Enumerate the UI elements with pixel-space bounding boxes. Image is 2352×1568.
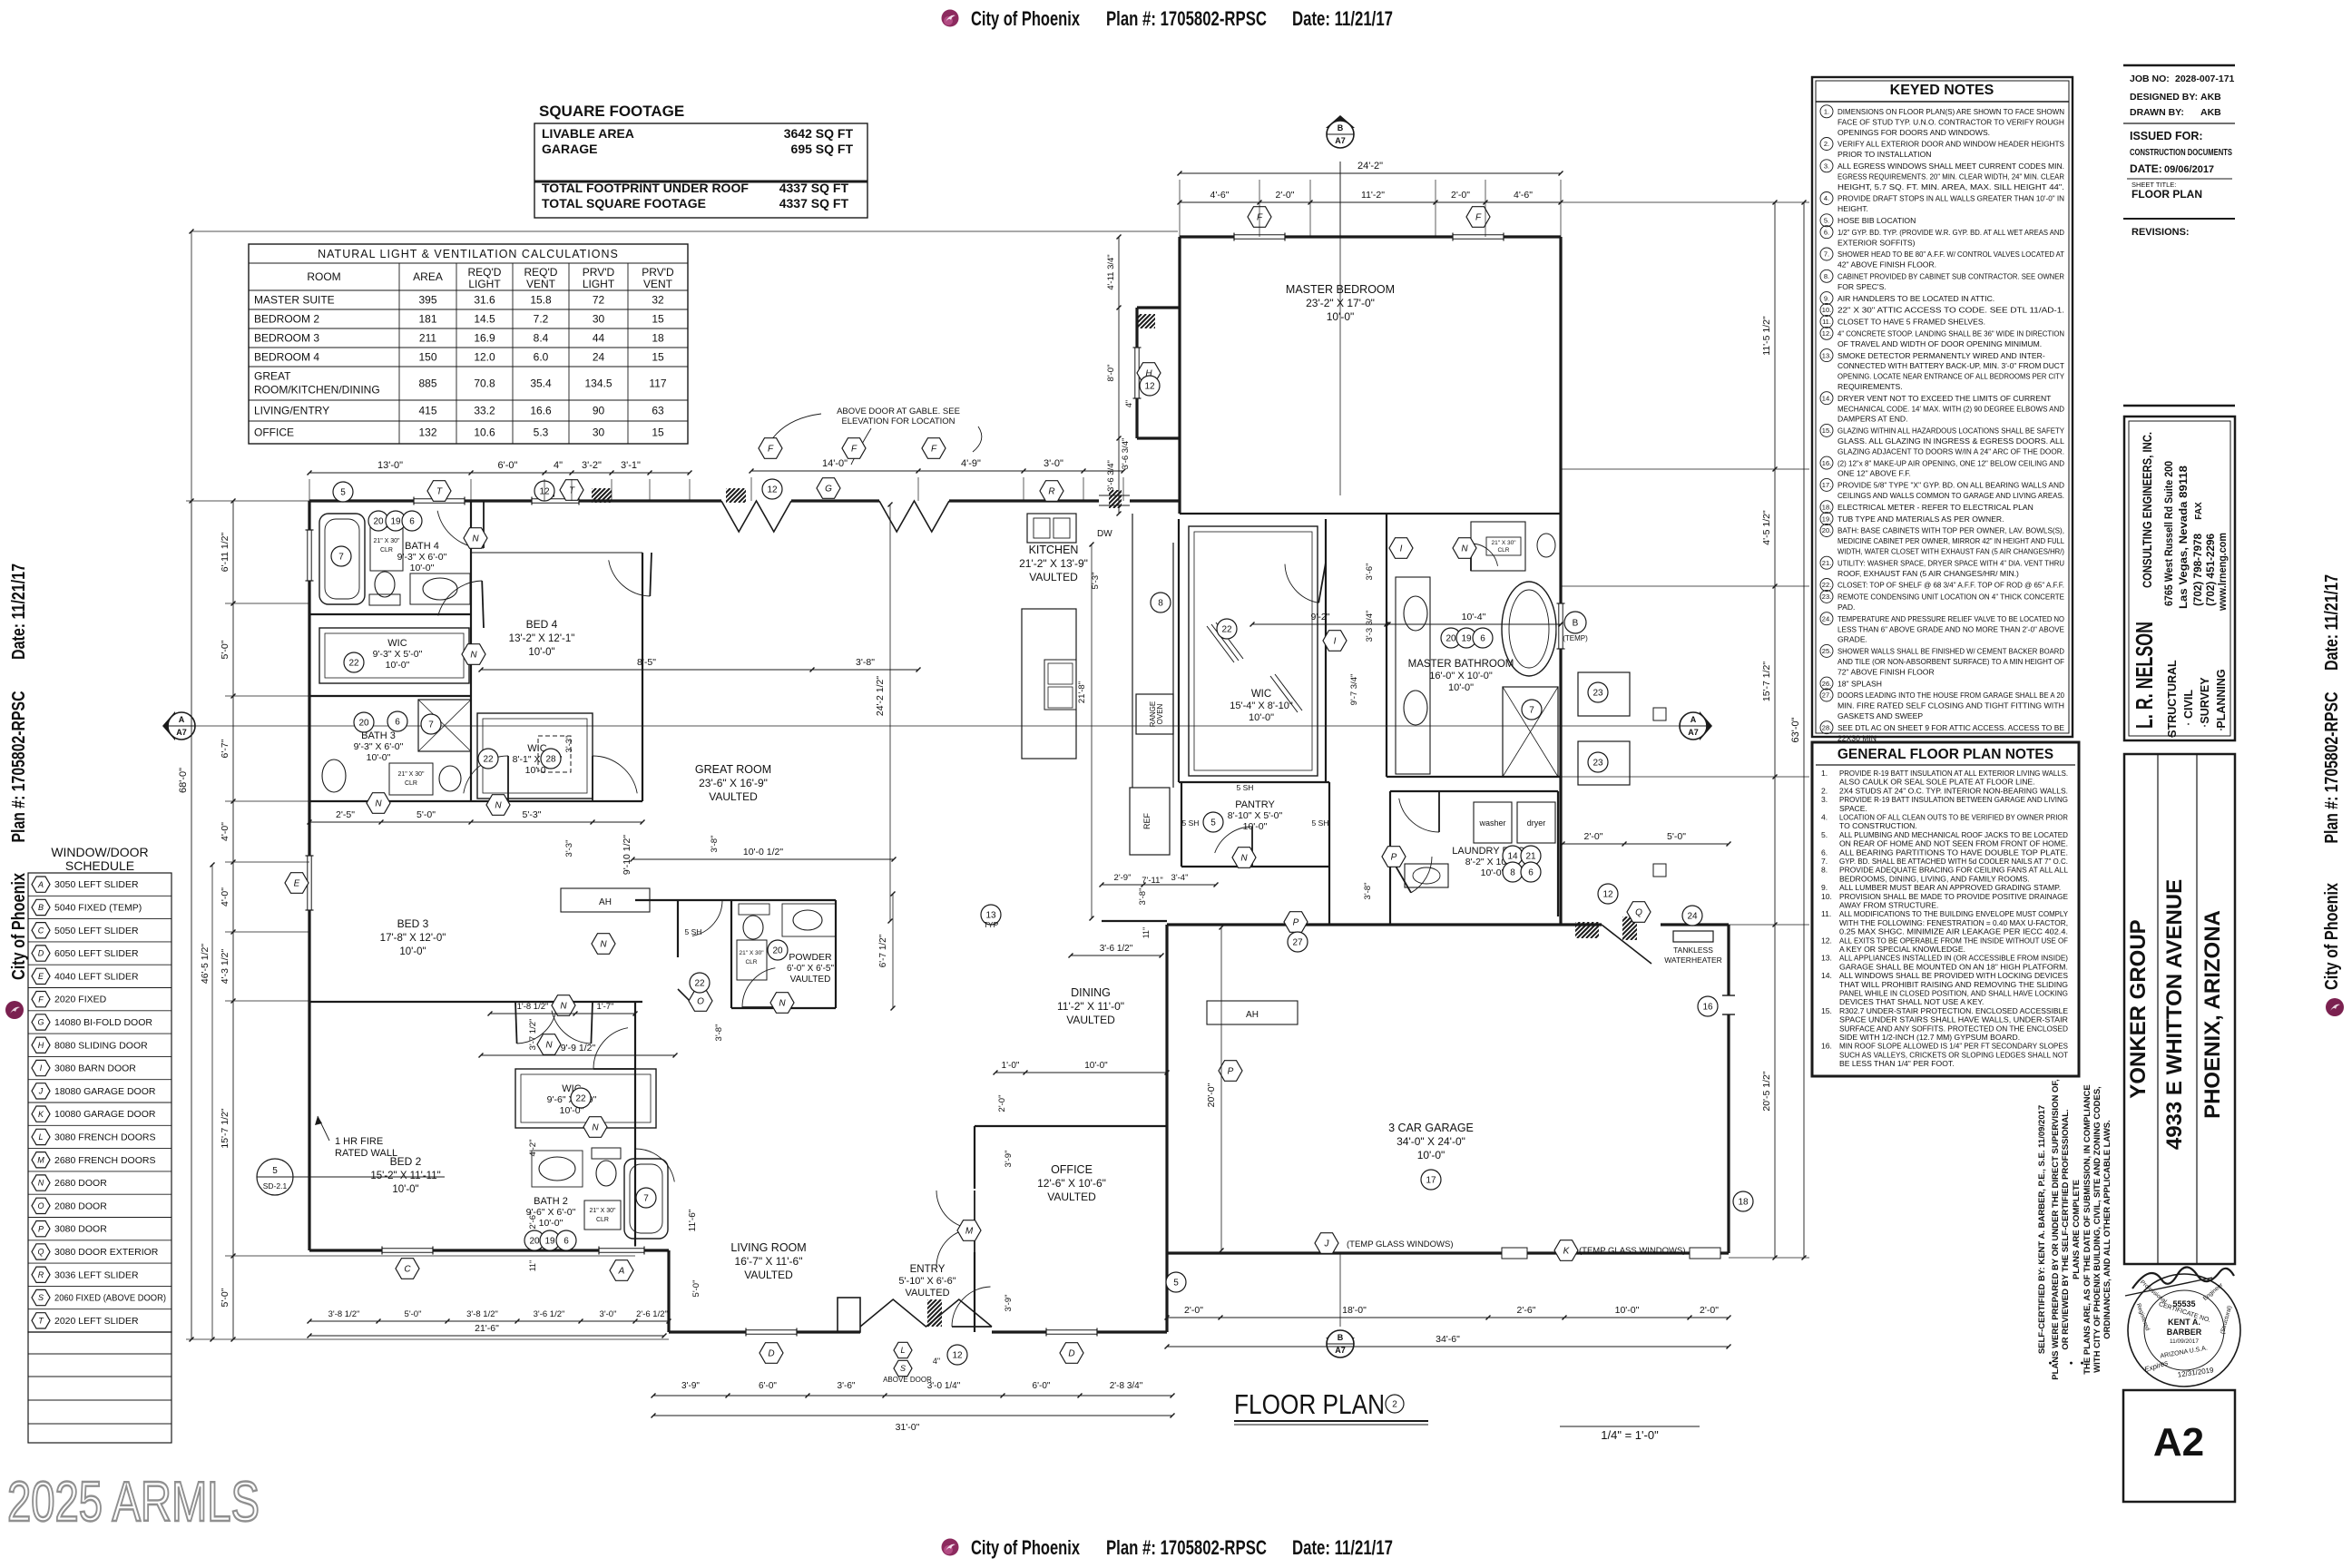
- svg-text:1'-7": 1'-7": [597, 1002, 614, 1012]
- room label garage: [1388, 1122, 1474, 1161]
- svg-text:3'-9": 3'-9": [1004, 1295, 1014, 1312]
- svg-text:H: H: [38, 1041, 44, 1050]
- svg-text:21.: 21.: [1822, 559, 1831, 567]
- attic access dashed: [538, 736, 571, 772]
- svg-text:134.5: 134.5: [584, 377, 612, 390]
- svg-text:PANTRY: PANTRY: [1235, 799, 1275, 810]
- svg-text:DW: DW: [1097, 529, 1112, 539]
- svg-text:4'-3 1/2": 4'-3 1/2": [220, 949, 230, 985]
- svg-text:SIDE WITH 1/2-INCH (12.7 MM) G: SIDE WITH 1/2-INCH (12.7 MM) GYPSUM BOAR…: [1839, 1033, 2020, 1042]
- general floor plan notes panel: [1812, 742, 2079, 1076]
- svg-text:ALL EXITS TO BE OPERABLE FROM: ALL EXITS TO BE OPERABLE FROM THE INSIDE…: [1839, 936, 2068, 945]
- room label bath2: [526, 1196, 576, 1229]
- room label bed4: [509, 618, 575, 658]
- svg-text:21" X 30": 21" X 30": [397, 771, 425, 778]
- svg-text:F: F: [1257, 213, 1263, 223]
- svg-text:F: F: [768, 445, 774, 455]
- svg-text:24.: 24.: [1822, 614, 1831, 622]
- svg-text:SHOWER WALLS SHALL BE FINISHED: SHOWER WALLS SHALL BE FINISHED W/ CEMENT…: [1837, 647, 2064, 656]
- svg-text:A7: A7: [1335, 1346, 1346, 1355]
- svg-text:DRAWN BY:: DRAWN BY:: [2130, 107, 2184, 118]
- svg-text:ALL WINDOWS SHALL BE PROVIDED: ALL WINDOWS SHALL BE PROVIDED WITH LOCKI…: [1839, 971, 2068, 980]
- svg-text:8'-5": 8'-5": [637, 657, 656, 668]
- svg-text:THAT WILL PROHIBIT RAISING AND: THAT WILL PROHIBIT RAISING AND REMOVING …: [1839, 980, 2068, 989]
- svg-text:CLR: CLR: [596, 1217, 609, 1223]
- svg-text:P: P: [1228, 1067, 1234, 1077]
- svg-text:ROOM: ROOM: [307, 270, 340, 283]
- svg-text:3080 DOOR: 3080 DOOR: [54, 1224, 107, 1235]
- svg-text:I: I: [1334, 637, 1337, 647]
- left outer dim 68 ft: [191, 501, 192, 1339]
- natural light and ventilation calculations table: [249, 244, 688, 444]
- svg-text:3'-7 1/2": 3'-7 1/2": [528, 1019, 538, 1051]
- svg-text:10'-0": 10'-0": [392, 1184, 418, 1195]
- svg-text:BEDROOM 4: BEDROOM 4: [254, 351, 319, 364]
- condenser pads with 23: [1578, 672, 1630, 716]
- svg-text:24'-2 1/2": 24'-2 1/2": [875, 676, 886, 717]
- svg-text:1.: 1.: [1821, 769, 1828, 778]
- svg-text:3'-8 1/2": 3'-8 1/2": [328, 1309, 360, 1319]
- svg-text:2'-0": 2'-0": [1276, 190, 1295, 201]
- svg-text:3'-8": 3'-8": [1138, 888, 1148, 906]
- svg-text:16.: 16.: [1822, 459, 1831, 467]
- svg-text:27: 27: [1292, 938, 1303, 948]
- svg-text:10'-4": 10'-4": [1462, 612, 1486, 622]
- self-certification text: [2037, 1079, 2112, 1380]
- svg-text:FACE OF STUD TYP. U.N.O. CONTR: FACE OF STUD TYP. U.N.O. CONTRACTOR TO V…: [1837, 117, 2064, 126]
- svg-text:117: 117: [649, 377, 666, 390]
- svg-text:ROOF, EXHAUST FAN (5 AIR CHANG: ROOF, EXHAUST FAN (5 AIR CHANGES/HR/ MIN…: [1837, 569, 2019, 578]
- svg-text:www.lrneng.com: www.lrneng.com: [2216, 533, 2229, 612]
- svg-text:6: 6: [395, 718, 400, 728]
- powder room walls: [635, 900, 836, 1010]
- svg-text:70.8: 70.8: [474, 377, 495, 390]
- svg-text:SUCH AS VALLEYS, CRICKETS OR S: SUCH AS VALLEYS, CRICKETS OR SLOPING LED…: [1839, 1050, 2069, 1059]
- svg-text:CONSULTING ENGINEERS, INC.: CONSULTING ENGINEERS, INC.: [2141, 432, 2154, 588]
- svg-text:PANEL WHILE IN CLOSED POSITION: PANEL WHILE IN CLOSED POSITION, AND SHAL…: [1839, 989, 2068, 998]
- svg-text:11'-2": 11'-2": [1361, 190, 1385, 201]
- footer text: [971, 1536, 1393, 1559]
- svg-text:E: E: [294, 879, 300, 889]
- svg-text:T: T: [436, 487, 443, 497]
- svg-text:ORDINANCES, AND ALL OTHER APPL: ORDINANCES, AND ALL OTHER APPLICABLE LAW…: [2102, 1120, 2112, 1339]
- svg-text:SQUARE FOOTAGE: SQUARE FOOTAGE: [539, 103, 684, 120]
- svg-text:22: 22: [1221, 625, 1232, 635]
- svg-text:3642 SQ FT: 3642 SQ FT: [784, 126, 854, 141]
- svg-text:WITH THE FOLLOWING: FENESTRATI: WITH THE FOLLOWING: FENESTRATION = 0.40 …: [1839, 918, 2068, 927]
- room label bath4: [397, 541, 447, 573]
- closet WIC bed3: [477, 713, 593, 799]
- room label wic2: [513, 743, 563, 776]
- room label living room: [730, 1241, 806, 1281]
- svg-text:5'-0": 5'-0": [416, 809, 436, 820]
- svg-text:F: F: [851, 445, 857, 455]
- svg-text:5.: 5.: [1824, 217, 1829, 225]
- room label entry: [898, 1264, 955, 1298]
- dimension extension lines left side: [186, 230, 1178, 1342]
- svg-text:3'-4": 3'-4": [1171, 873, 1189, 883]
- svg-text:6: 6: [1480, 634, 1485, 644]
- svg-text:9'-2": 9'-2": [1311, 612, 1330, 622]
- keyed notes panel: [1812, 77, 2073, 742]
- svg-text:1.: 1.: [1824, 108, 1829, 116]
- svg-text:4'-11 3/4": 4'-11 3/4": [1106, 254, 1116, 289]
- svg-text:CONNECTED WITH BATTERY BACK-UP: CONNECTED WITH BATTERY BACK-UP, MIN. 3'-…: [1837, 361, 2065, 370]
- svg-text:N: N: [1461, 544, 1468, 554]
- svg-text:3080 FRENCH DOORS: 3080 FRENCH DOORS: [54, 1132, 155, 1142]
- svg-text:ONE 12" ABOVE F.F.: ONE 12" ABOVE F.F.: [1837, 469, 1911, 478]
- svg-text:34'-0" X 24'-0": 34'-0" X 24'-0": [1396, 1135, 1465, 1148]
- svg-text:7'-11": 7'-11": [1142, 876, 1163, 886]
- svg-text:YONKER GROUP: YONKER GROUP: [2126, 919, 2151, 1098]
- svg-text:415: 415: [418, 405, 436, 417]
- svg-text:5: 5: [1173, 1279, 1179, 1289]
- svg-text:20'-5 1/2": 20'-5 1/2": [1761, 1071, 1772, 1112]
- svg-text:17: 17: [1426, 1176, 1436, 1186]
- svg-text:21" X 30": 21" X 30": [373, 538, 400, 544]
- room label office: [1037, 1163, 1106, 1203]
- window/door hexagon markers: [285, 207, 1651, 1364]
- svg-text:3'-3 3/4": 3'-3 3/4": [1365, 611, 1375, 642]
- svg-text:6'-11 1/2": 6'-11 1/2": [220, 532, 230, 572]
- svg-text:16.6: 16.6: [530, 405, 552, 417]
- svg-text:5040 FIXED (TEMP): 5040 FIXED (TEMP): [54, 902, 142, 913]
- svg-text:PROVIDE ADEQUATE BRACING FOR C: PROVIDE ADEQUATE BRACING FOR CEILING FAN…: [1839, 866, 2068, 875]
- svg-text:STRUCTURAL: STRUCTURAL: [2166, 660, 2179, 738]
- svg-text:BATH: BASE CABINETS WITH TOP: BATH: BASE CABINETS WITH TOP PER OWNER, …: [1837, 526, 2064, 535]
- svg-text:6'-0" X 6'-5": 6'-0" X 6'-5": [787, 964, 835, 974]
- svg-text:20.: 20.: [1822, 526, 1831, 534]
- svg-text:A7: A7: [1688, 728, 1699, 737]
- door swings: [437, 501, 1497, 1327]
- svg-text:9'-3" X 5'-0": 9'-3" X 5'-0": [373, 649, 423, 660]
- svg-text:2'-0": 2'-0": [1700, 1305, 1719, 1316]
- svg-text:2'-0": 2'-0": [1184, 1305, 1203, 1316]
- svg-text:395: 395: [418, 294, 436, 307]
- room label master wic: [1230, 689, 1293, 723]
- svg-text:12: 12: [1602, 890, 1613, 900]
- 5/SD-2.1 marker: [257, 1159, 445, 1195]
- note 1hr fire wall: [315, 1116, 397, 1159]
- svg-text:7.2: 7.2: [534, 313, 549, 326]
- svg-text:885: 885: [418, 377, 436, 390]
- svg-text:3'-6": 3'-6": [838, 1381, 856, 1391]
- svg-text:N: N: [779, 999, 786, 1009]
- svg-text:WINDOW/DOOR: WINDOW/DOOR: [51, 845, 148, 859]
- svg-text:25.: 25.: [1822, 647, 1831, 655]
- svg-text:8: 8: [1158, 599, 1163, 609]
- svg-text:1/2" GYP. BD. TYP. (PROVIDE W.: 1/2" GYP. BD. TYP. (PROVIDE W.R. GYP. BD…: [1837, 228, 2064, 237]
- svg-text:G: G: [37, 1018, 44, 1027]
- svg-text:3'-3": 3'-3": [564, 840, 574, 857]
- svg-text:5: 5: [340, 488, 346, 498]
- keyed note circle markers: [331, 376, 1753, 1365]
- svg-text:22" X 30" ATTIC ACCESS TO CODE: 22" X 30" ATTIC ACCESS TO CODE. SEE DTL …: [1837, 306, 2064, 315]
- svg-text:4'-5 1/2": 4'-5 1/2": [1761, 510, 1772, 545]
- svg-text:2'-0": 2'-0": [1584, 831, 1603, 842]
- svg-text:MECHANICAL CODE. 14' MAX. WITH: MECHANICAL CODE. 14' MAX. WITH (2) 90 DE…: [1837, 404, 2064, 413]
- svg-text:22: 22: [694, 979, 705, 989]
- right vertical dims: [1774, 202, 1776, 1258]
- room label powder: [787, 952, 835, 985]
- svg-text:N: N: [495, 801, 502, 811]
- svg-text:MIN. FIRE RATED SELF CLOSING A: MIN. FIRE RATED SELF CLOSING AND TIGHT F…: [1837, 701, 2064, 710]
- svg-text:OF TRAVEL AND WIDTH OF DOOR OP: OF TRAVEL AND WIDTH OF DOOR OPENING MINI…: [1837, 339, 2042, 348]
- svg-text:REMOTE CONDENSING UNIT LOCATIO: REMOTE CONDENSING UNIT LOCATION ON 4" TH…: [1837, 593, 2064, 602]
- svg-text:GLASS. ALL GLAZING IN INGRESS: GLASS. ALL GLAZING IN INGRESS & EGRESS D…: [1837, 436, 2064, 446]
- svg-text:GENERAL FLOOR PLAN NOTES: GENERAL FLOOR PLAN NOTES: [1837, 747, 2053, 762]
- svg-text:11'-2" X 11'-0": 11'-2" X 11'-0": [1057, 1000, 1124, 1013]
- svg-text:3'-8": 3'-8": [714, 1024, 724, 1042]
- svg-text:3'-6 3/4": 3'-6 3/4": [1106, 460, 1116, 492]
- svg-text:15: 15: [652, 426, 664, 439]
- svg-text:AND TILE (OR NON-ABSORBENT SUR: AND TILE (OR NON-ABSORBENT SURFACE) TO A…: [1837, 657, 2064, 666]
- svg-text:11.: 11.: [1821, 909, 1831, 918]
- svg-text:City of Phoenix: City of Phoenix: [971, 1536, 1081, 1559]
- svg-text:VENT: VENT: [643, 278, 673, 290]
- svg-text:2: 2: [1392, 1400, 1397, 1410]
- svg-text:PROVISION SHALL BE MADE TO PRO: PROVISION SHALL BE MADE TO PROVIDE POSIT…: [1839, 892, 2068, 901]
- svg-text:T: T: [569, 486, 575, 496]
- svg-text:6'-0": 6'-0": [759, 1381, 777, 1391]
- svg-text:10'-0": 10'-0": [1417, 1149, 1445, 1161]
- svg-text:CIVIL: CIVIL: [2182, 690, 2195, 719]
- svg-text:BEDROOM 3: BEDROOM 3: [254, 332, 319, 345]
- svg-text:5050 LEFT SLIDER: 5050 LEFT SLIDER: [54, 926, 139, 936]
- svg-text:55535: 55535: [2172, 1299, 2195, 1308]
- svg-text:90: 90: [593, 405, 605, 417]
- svg-text:7: 7: [338, 553, 344, 563]
- garage exterior top dims: [1563, 843, 1729, 845]
- svg-text:2080 DOOR: 2080 DOOR: [54, 1200, 107, 1211]
- svg-text:5'-0": 5'-0": [1667, 831, 1686, 842]
- svg-text:OPENING. LOCATE NEAR ENTRANCE: OPENING. LOCATE NEAR ENTRANCE OF ALL BED…: [1837, 372, 2064, 381]
- svg-text:Date: 11/21/17: Date: 11/21/17: [1292, 1536, 1393, 1559]
- svg-text:VAULTED: VAULTED: [790, 975, 831, 985]
- interior dim rows left wing: [309, 821, 642, 823]
- svg-text:15'-7 1/2": 15'-7 1/2": [220, 1108, 230, 1149]
- svg-text:13'-2" X 12'-1": 13'-2" X 12'-1": [509, 633, 575, 644]
- section line A-A7 horizontal: [162, 711, 1712, 740]
- svg-text:21" X 30": 21" X 30": [1491, 540, 1516, 546]
- svg-text:DESIGNED BY:: DESIGNED BY:: [2130, 92, 2198, 103]
- svg-text:6765 West Russell Rd Suite 20: 6765 West Russell Rd Suite 200: [2162, 461, 2175, 606]
- svg-text:13'-0": 13'-0": [377, 460, 403, 471]
- hatched wall sections: [577, 488, 623, 503]
- svg-text:11": 11": [1142, 927, 1151, 939]
- svg-text:20: 20: [529, 1237, 540, 1247]
- svg-text:MEDICINE CABINET PER OWNER, MI: MEDICINE CABINET PER OWNER, MIRROR 42" I…: [1837, 536, 2064, 545]
- svg-text:A: A: [1690, 715, 1697, 724]
- svg-text:R: R: [38, 1270, 44, 1279]
- svg-text:10'-0 1/2": 10'-0 1/2": [743, 847, 784, 857]
- svg-text:3'-9": 3'-9": [681, 1381, 700, 1391]
- svg-text:DAMPERS AT END.: DAMPERS AT END.: [1837, 415, 1908, 424]
- svg-text:2.: 2.: [1824, 140, 1829, 148]
- svg-text:4'-0": 4'-0": [220, 822, 230, 841]
- svg-text:4933 E WHITTON AVENUE: 4933 E WHITTON AVENUE: [2162, 879, 2187, 1150]
- svg-text:6.0: 6.0: [534, 351, 549, 364]
- svg-text:30: 30: [593, 426, 605, 439]
- svg-text:POWDER: POWDER: [789, 952, 832, 963]
- svg-text:N: N: [545, 1041, 553, 1051]
- interior misc dims: [632, 858, 894, 860]
- svg-text:4" CONCRETE STOOP. LANDING SH: 4" CONCRETE STOOP. LANDING SHALL BE 36" …: [1837, 329, 2064, 338]
- svg-text:6: 6: [1528, 868, 1534, 878]
- svg-text:S: S: [900, 1364, 906, 1373]
- svg-text:10'-0": 10'-0": [1249, 712, 1274, 723]
- svg-text:REF: REF: [1142, 812, 1151, 829]
- svg-text:·: ·: [2213, 727, 2229, 731]
- svg-text:O: O: [697, 997, 704, 1007]
- svg-text:23.: 23.: [1822, 593, 1831, 601]
- svg-text:CLR: CLR: [745, 959, 757, 965]
- svg-text:17.: 17.: [1822, 481, 1831, 489]
- svg-text:4337 SQ FT: 4337 SQ FT: [779, 196, 849, 211]
- svg-text:20: 20: [772, 946, 783, 956]
- svg-text:150: 150: [418, 351, 436, 364]
- svg-text:(2) 12"x 8" MAKE-UP AIR OPENIN: (2) 12"x 8" MAKE-UP AIR OPENING, ONE 12"…: [1837, 458, 2064, 467]
- svg-text:20: 20: [358, 719, 369, 729]
- svg-text:16.: 16.: [1821, 1042, 1832, 1051]
- svg-text:A: A: [179, 715, 185, 724]
- svg-text:SPACE UNDER STAIRS SHALL HAVE: SPACE UNDER STAIRS SHALL HAVE WALLS, UND…: [1839, 1015, 2068, 1024]
- svg-text:SD-2.1: SD-2.1: [263, 1181, 288, 1191]
- svg-text:10'-0": 10'-0": [539, 1218, 563, 1229]
- svg-text:EGRESS REQUIREMENTS. 20" MIN.: EGRESS REQUIREMENTS. 20" MIN. CLEAR WIDT…: [1837, 171, 2064, 181]
- bath 2 fixtures: [532, 1148, 668, 1239]
- svg-text:(TEMP): (TEMP): [1563, 634, 1588, 642]
- svg-text:10.: 10.: [1822, 306, 1831, 314]
- svg-text:Date: 11/21/17: Date: 11/21/17: [9, 563, 29, 660]
- svg-text:VAULTED: VAULTED: [905, 1288, 949, 1298]
- dimension extension lines right side: [1561, 202, 1809, 1258]
- svg-text:CLR: CLR: [380, 547, 393, 554]
- svg-text:4.: 4.: [1824, 194, 1829, 202]
- svg-text:N: N: [560, 1002, 567, 1012]
- svg-text:Q: Q: [37, 1248, 44, 1257]
- svg-text:1/4" = 1'-0": 1/4" = 1'-0": [1601, 1428, 1659, 1442]
- master WIC: [1189, 526, 1318, 776]
- svg-text:VAULTED: VAULTED: [709, 790, 758, 803]
- svg-text:8'-0": 8'-0": [1106, 365, 1116, 382]
- svg-text:31'-0": 31'-0": [896, 1422, 920, 1433]
- svg-text:8.: 8.: [1821, 866, 1828, 875]
- svg-text:WIDTH, WATER CLOSET WITH EXHAU: WIDTH, WATER CLOSET WITH EXHAUST FAN (5 …: [1837, 547, 2064, 556]
- svg-text:23'-2" X 17'-0": 23'-2" X 17'-0": [1306, 297, 1375, 309]
- right margin vertical stamp text: [2322, 574, 2342, 990]
- svg-text:6.: 6.: [1821, 848, 1828, 857]
- svg-text:PLANS ARE COMPLETE: PLANS ARE COMPLETE: [2072, 1180, 2082, 1279]
- svg-text:7.: 7.: [1821, 857, 1828, 866]
- note above door at gable: [769, 407, 982, 465]
- window/door schedule: [28, 845, 171, 1443]
- svg-text:4040 LEFT SLIDER: 4040 LEFT SLIDER: [54, 971, 139, 982]
- svg-text:LESS THAN 6" ABOVE GRADE AND N: LESS THAN 6" ABOVE GRADE AND NO MORE THA…: [1837, 624, 2064, 633]
- svg-text:26.: 26.: [1822, 680, 1831, 688]
- svg-text:10080 GARAGE DOOR: 10080 GARAGE DOOR: [54, 1109, 156, 1120]
- svg-text:City of Phoenix: City of Phoenix: [971, 7, 1081, 30]
- svg-text:REQUIREMENTS.: REQUIREMENTS.: [1837, 382, 1903, 391]
- svg-text:72: 72: [593, 294, 605, 307]
- svg-text:F: F: [38, 995, 44, 1004]
- windows on exterior walls: [306, 233, 1565, 1337]
- svg-text:Date: 11/21/17: Date: 11/21/17: [2322, 574, 2342, 671]
- svg-text:4": 4": [1124, 400, 1133, 407]
- svg-text:D: D: [38, 949, 44, 958]
- title block: job info: [2123, 65, 2235, 238]
- svg-text:VERIFY ALL EXTERIOR DOOR AND W: VERIFY ALL EXTERIOR DOOR AND WINDOW HEAD…: [1837, 140, 2064, 149]
- svg-text:BED 3: BED 3: [397, 917, 429, 930]
- room label bed2: [370, 1155, 440, 1195]
- svg-text:3036 LEFT SLIDER: 3036 LEFT SLIDER: [54, 1269, 139, 1280]
- svg-text:10'-0": 10'-0": [367, 752, 391, 763]
- svg-text:27.: 27.: [1822, 691, 1831, 700]
- room label master bathroom: [1408, 659, 1514, 693]
- svg-text:TOTAL FOOTPRINT UNDER ROOF: TOTAL FOOTPRINT UNDER ROOF: [542, 181, 749, 195]
- svg-text:2060 FIXED (ABOVE DOOR): 2060 FIXED (ABOVE DOOR): [54, 1293, 166, 1304]
- svg-text:CABINET PROVIDED BY CABINET SU: CABINET PROVIDED BY CABINET SUB CONTRACT…: [1837, 272, 2064, 281]
- room label bath3: [354, 730, 404, 763]
- svg-text:LIVABLE AREA: LIVABLE AREA: [542, 126, 634, 141]
- svg-text:15: 15: [652, 313, 664, 326]
- svg-text:F: F: [931, 445, 937, 455]
- svg-text:5.3: 5.3: [534, 426, 549, 439]
- svg-text:13: 13: [985, 911, 996, 921]
- svg-text:LIGHT: LIGHT: [583, 278, 615, 290]
- svg-text:19: 19: [1461, 634, 1472, 644]
- svg-text:THE PLANS ARE, AS OF THE DATE: THE PLANS ARE, AS OF THE DATE OF SUBMISS…: [2082, 1084, 2092, 1375]
- svg-text:BARBER: BARBER: [2167, 1328, 2202, 1337]
- svg-text:·: ·: [2180, 721, 2196, 726]
- svg-text:SPACE.: SPACE.: [1839, 804, 1867, 813]
- svg-text:BEDROOM 2: BEDROOM 2: [254, 313, 319, 326]
- svg-text:5 SH: 5 SH: [1182, 818, 1200, 828]
- svg-text:E: E: [38, 972, 44, 981]
- svg-text:LIVING ROOM: LIVING ROOM: [730, 1241, 806, 1254]
- svg-text:PRV'D: PRV'D: [583, 266, 615, 279]
- svg-text:15'-4" X 8'-10": 15'-4" X 8'-10": [1230, 701, 1293, 711]
- 5 SH labels: [685, 783, 1329, 936]
- svg-text:MASTER BEDROOM: MASTER BEDROOM: [1286, 283, 1395, 296]
- svg-text:SCHEDULE: SCHEDULE: [65, 858, 134, 873]
- svg-text:63: 63: [652, 405, 664, 417]
- exterior walls: master suite block: [1137, 237, 1561, 925]
- svg-text:SURVEY: SURVEY: [2199, 677, 2211, 724]
- svg-text:L: L: [900, 1346, 905, 1355]
- section line B vertical through master bedroom: [1339, 162, 1341, 495]
- svg-text:4'-6": 4'-6": [1210, 190, 1230, 201]
- svg-text:A KEY OR SPECIAL KNOWLEDGE.: A KEY OR SPECIAL KNOWLEDGE.: [1839, 945, 1965, 954]
- header text: [971, 7, 1393, 30]
- svg-text:3'-8": 3'-8": [710, 836, 720, 853]
- svg-text:MIN ROOF SLOPE ALLOWED IS 1/4": MIN ROOF SLOPE ALLOWED IS 1/4" PER FT SE…: [1839, 1042, 2068, 1051]
- svg-text:19.: 19.: [1822, 514, 1831, 523]
- svg-text:3 CAR GARAGE: 3 CAR GARAGE: [1388, 1122, 1474, 1134]
- svg-text:AWAY FROM STRUCTURE.: AWAY FROM STRUCTURE.: [1839, 901, 1938, 910]
- svg-text:3.: 3.: [1824, 162, 1829, 171]
- svg-text:10'-0": 10'-0": [399, 946, 426, 957]
- svg-text:10'-0": 10'-0": [1448, 682, 1474, 693]
- svg-text:LIVING/ENTRY: LIVING/ENTRY: [254, 405, 329, 417]
- svg-text:3'-2": 3'-2": [582, 460, 602, 471]
- svg-text:FLOOR PLAN: FLOOR PLAN: [2131, 188, 2202, 201]
- svg-text:REQ'D: REQ'D: [468, 266, 502, 279]
- svg-text:2028-007-171: 2028-007-171: [2175, 73, 2235, 84]
- svg-text:4": 4": [933, 1357, 940, 1366]
- svg-text:15'-7 1/2": 15'-7 1/2": [1761, 661, 1772, 702]
- svg-text:PAD.: PAD.: [1837, 603, 1855, 612]
